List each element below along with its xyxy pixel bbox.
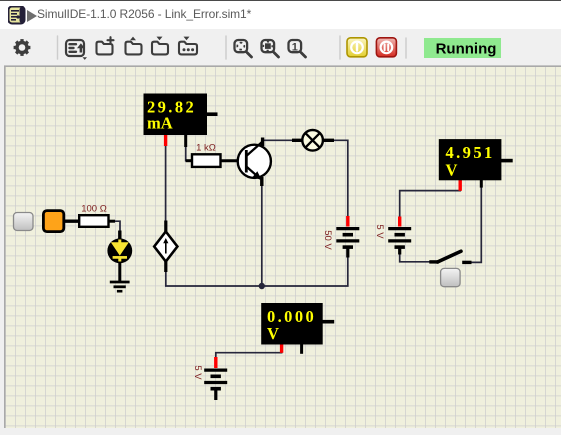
transistor emitter pin — [260, 177, 263, 186]
lamp right pin — [323, 139, 334, 142]
transistor base bar — [245, 150, 248, 173]
wire lamp to battery B1 — [333, 140, 348, 216]
LED cathode wire to ground — [118, 262, 121, 282]
svg-text:V: V — [446, 161, 458, 180]
svg-text:0.000: 0.000 — [267, 307, 316, 326]
wire ammeter+ to current source — [165, 145, 167, 221]
battery B3 plates — [204, 369, 227, 372]
voltmeter U2 right stub — [501, 159, 513, 163]
resistor R1 pins — [186, 159, 193, 162]
wire voltmeter U3 red to battery B3 — [216, 351, 282, 358]
transistor body circle — [238, 145, 271, 178]
transistor emitter lead — [246, 167, 260, 179]
wire bottom rail — [166, 256, 348, 286]
separator — [405, 38, 407, 58]
svg-text:1: 1 — [292, 41, 298, 53]
svg-text:mA: mA — [147, 114, 173, 133]
ammeter right stub — [207, 112, 218, 116]
wire collector to lamp — [263, 139, 293, 141]
resistor R2 body — [79, 215, 108, 227]
play triangle — [26, 10, 38, 22]
svg-text:1 kΩ: 1 kΩ — [196, 143, 216, 154]
battery B1 plates — [336, 227, 359, 230]
LED body — [107, 238, 132, 263]
current source diamond — [154, 232, 177, 262]
switch lever — [438, 251, 462, 262]
pause button (red) — [376, 38, 396, 57]
current source bottom pin — [164, 261, 167, 272]
switch right contact — [462, 261, 471, 264]
battery B3 negative stem — [214, 389, 217, 400]
resistor R1 body — [192, 154, 221, 167]
voltmeter U3 right stub — [323, 320, 335, 324]
LED yellow glyph — [118, 240, 121, 244]
battery B2 positive red pin — [398, 217, 401, 227]
save-as icon (folder down-arrow + dots) — [179, 37, 197, 55]
lamp body — [302, 130, 323, 151]
lamp left pin — [292, 139, 303, 142]
svg-text:50 V: 50 V — [322, 230, 333, 250]
toolbar — [0, 29, 561, 65]
recent-files icon — [66, 40, 87, 60]
title bar — [0, 0, 561, 29]
current source top pin — [164, 221, 167, 233]
separator — [339, 36, 341, 59]
SimulIDE app icon — [8, 6, 26, 25]
lamp cross — [306, 133, 320, 147]
open circuit icon (folder up-arrow) — [126, 37, 142, 55]
separator — [225, 36, 227, 59]
voltmeter U3 red pin — [280, 344, 283, 353]
wire voltmeter U2 red to battery B2 — [400, 189, 461, 217]
current source arrow — [165, 241, 167, 254]
resistor R2 right pin — [109, 220, 116, 223]
wire switch to voltmeter U2 black pin — [471, 186, 481, 262]
transistor collector lead — [246, 142, 262, 157]
voltmeter U3 body — [261, 303, 323, 345]
battery B2 negative stem — [398, 247, 401, 254]
wire battery B2 to switch — [400, 253, 430, 262]
switch left contact — [429, 260, 439, 263]
voltmeter U3 black pin — [300, 344, 303, 354]
LED anode pin — [118, 231, 121, 241]
settings gear icon — [14, 39, 31, 56]
battery B1 negative stem — [346, 247, 349, 257]
wire emitter down to bottom rail — [261, 184, 263, 286]
zoom-one icon — [289, 40, 306, 57]
ammeter red pin — [164, 135, 167, 146]
transistor emitter arrow — [253, 171, 262, 180]
bottom gray strip — [0, 428, 561, 430]
svg-text:V: V — [267, 324, 279, 343]
save circuit icon (folder down-arrow) — [152, 37, 168, 55]
svg-text:4.951: 4.951 — [446, 143, 495, 162]
ammeter body — [144, 94, 208, 136]
zoom-to-selected icon — [262, 40, 279, 57]
svg-text:5 V: 5 V — [374, 224, 385, 239]
voltmeter U2 body — [439, 139, 502, 180]
battery B3 positive red pin — [214, 357, 217, 368]
battery B2 plates — [388, 227, 411, 230]
wire ammeter- to resistor R1 — [186, 146, 187, 161]
zoom-to-fit icon — [235, 40, 252, 57]
voltmeter U2 red pin — [459, 180, 462, 191]
fixed volt body — [43, 211, 63, 232]
ammeter black pin — [184, 135, 187, 147]
transistor collector pin — [261, 138, 264, 147]
Running status label — [424, 38, 501, 58]
svg-text:Running: Running — [436, 41, 497, 58]
battery B1 positive red pin — [346, 216, 349, 227]
window title text — [37, 7, 251, 21]
voltmeter U2 black pin — [480, 180, 483, 188]
wire 100ohm resistor to LED — [109, 221, 120, 232]
power button (yellow) — [347, 38, 367, 57]
separator — [57, 36, 59, 59]
svg-text:100 Ω: 100 Ω — [81, 204, 107, 215]
svg-text:5 V: 5 V — [192, 365, 203, 380]
fixed volt output pin — [63, 219, 80, 222]
new circuit icon (folder +) — [97, 37, 114, 54]
